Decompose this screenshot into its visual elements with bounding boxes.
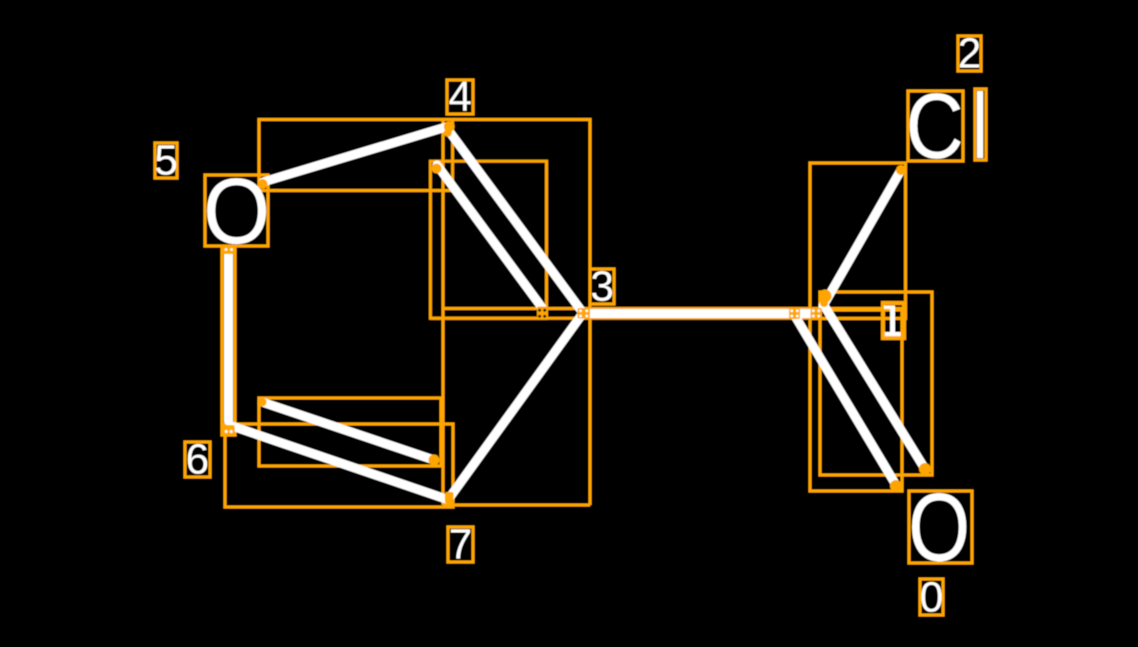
atom C glyph of Cl: [910, 93, 961, 159]
box bond C1-Cl2: [810, 163, 906, 319]
dot bond C1=O0 main end: [919, 463, 931, 475]
bond C7=C6 main line: [232, 426, 446, 499]
bond C7=C6 inner line: [262, 402, 434, 460]
bond C1=O0 inner line: [795, 316, 896, 485]
label 5 digit: [156, 145, 176, 175]
dot vertex C7: [445, 492, 454, 504]
label 6 box: [185, 442, 210, 477]
endpoint dots: [223, 121, 931, 503]
dot inner line C4=C3 top: [432, 164, 442, 174]
label 1 digit: [884, 306, 900, 336]
bond C3-C7: [450, 313, 583, 497]
label 5 box: [155, 143, 177, 178]
box atom O0: [909, 491, 972, 563]
box bond C3-C1 bottom edge: [431, 317, 906, 320]
label 7 digit: [451, 529, 470, 558]
box bond C4=C3 main left edge: [442, 120, 445, 506]
bond C1=O0 main line: [825, 307, 925, 469]
marker bond C3-C1 end A: [789, 308, 800, 319]
label 6 digit: [188, 444, 208, 474]
dot inner line C7=C6 right: [429, 455, 440, 466]
box bond C7=C6 inner: [259, 398, 441, 466]
atom O0 glyph: [912, 493, 966, 562]
atom l glyph of Cl: [977, 91, 983, 158]
box atom O5: [205, 175, 268, 246]
dot vertex C6: [223, 425, 235, 435]
label 7 box: [448, 527, 473, 562]
dot vertex C1: [819, 290, 832, 303]
box bond C3-C7: [443, 504, 590, 507]
dot bond end at O5: [258, 179, 268, 189]
dot inner line C7=C6 left: [258, 398, 267, 407]
box bond C6-O5: [222, 246, 235, 435]
box bond C3-C1 top edge: [443, 307, 902, 310]
label 2 digit: [960, 38, 979, 68]
atom O5 glyph: [207, 178, 266, 244]
dot bond C1=O0 inner end: [890, 480, 902, 492]
bond O5-C4: [263, 127, 446, 182]
bond C4=C3 inner line: [437, 165, 543, 309]
box bond C4=C3 main top+right: [453, 120, 590, 506]
box atom C of Cl: [908, 91, 963, 161]
box bond C1=O0 inner: [810, 310, 902, 491]
marker inner C4=C3 bottom: [537, 307, 548, 318]
box atom l of Cl: [975, 89, 986, 160]
box bond C4=C3 inner: [430, 161, 546, 318]
marker bond C3-C1 end B: [811, 308, 823, 319]
label 3 digit: [592, 271, 612, 301]
bond C3-C1: [583, 309, 817, 318]
marker vertex C3: [578, 308, 591, 319]
bonds: white lines: [229, 127, 926, 499]
box bond O5-C4: [259, 120, 453, 191]
bond C1-Cl2: [823, 170, 901, 306]
dot vertex C4: [444, 121, 455, 132]
label 0 box: [920, 579, 943, 615]
label 4 box: [447, 80, 473, 114]
bond C6-O5: [224, 254, 233, 421]
label 2 box: [958, 36, 981, 71]
label 1 box: [883, 303, 904, 338]
label 4 digit: [449, 82, 470, 111]
label 3 box: [590, 269, 614, 304]
index labels: orange boxes with white digits: [155, 36, 981, 615]
box bond C7=C6 main: [225, 424, 453, 507]
dot bond C6-O5 top marker: [223, 246, 234, 254]
dot bond C1-Cl2 top: [896, 165, 906, 175]
box bond C1=O0 main: [820, 292, 932, 475]
label 0 digit: [921, 582, 941, 612]
bond C4=C3 main line: [446, 127, 583, 313]
white mini dots in markers: [225, 248, 233, 433]
